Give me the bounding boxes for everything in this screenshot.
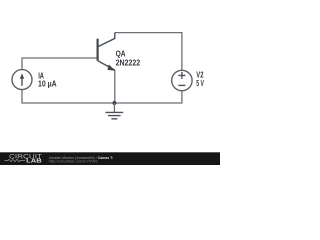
- footer logo resistor squiggle: [5, 159, 26, 161]
- current source IA: [12, 70, 32, 90]
- svg-text:http://circuitlab.com/c7rrW6: http://circuitlab.com/c7rrW6: [49, 160, 98, 164]
- footer bar: [0, 152, 220, 165]
- ground: [105, 103, 123, 119]
- wire emitter to junction: [114, 70, 116, 103]
- wire top rail: [115, 33, 182, 71]
- junction dot: [112, 101, 116, 105]
- voltage source V2: [172, 70, 192, 90]
- wire bottom rail: [22, 90, 182, 103]
- svg-text:2N2222: 2N2222: [116, 58, 141, 68]
- svg-text:5 V: 5 V: [196, 78, 204, 88]
- svg-text:LAB: LAB: [26, 158, 42, 164]
- wire from IA top to base: [22, 58, 97, 70]
- transistor QA: [98, 33, 116, 71]
- svg-text:10 µA: 10 µA: [38, 79, 57, 89]
